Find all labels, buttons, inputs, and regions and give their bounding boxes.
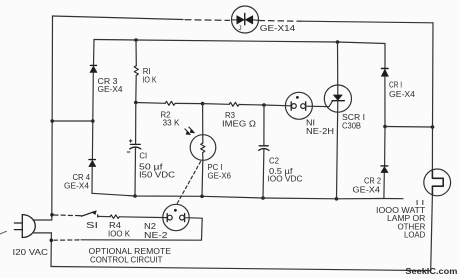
value label 33 K xyxy=(163,119,181,128)
label CR 2 xyxy=(364,177,382,186)
wire: outer left vertical xyxy=(51,16,54,220)
wire: outer top bus (left solid segment) xyxy=(53,16,184,20)
svg-text:CR 2: CR 2 xyxy=(364,177,382,186)
wire: bottom left vertical (plug to bottom bus corner) xyxy=(50,233,52,267)
svg-text:NE-2: NE-2 xyxy=(144,231,168,240)
wire: C1 bottom lead xyxy=(134,148,137,197)
scan artifact stroke (bottom left margin) xyxy=(0,231,7,234)
label N1 xyxy=(306,119,315,128)
wire: tie from CR junction to outer right vertical xyxy=(385,126,433,129)
dashed light path from N2 to PC1 xyxy=(177,162,201,205)
node: outer left vertical at tie wire xyxy=(50,119,54,123)
label R1 xyxy=(143,67,151,76)
wire: SCR cathode lead to bottom bus xyxy=(337,101,338,199)
node: bottom bus / SCR cathode junction xyxy=(335,197,339,201)
resistor R3 1MEG (horizontal zigzag) xyxy=(229,102,239,106)
svg-text:GE-X4: GE-X4 xyxy=(353,185,381,194)
wire: dashed remote feed to S1 xyxy=(54,214,79,217)
wire: outer top bus (right solid segment to top-right corner) xyxy=(301,21,433,23)
svg-text:GE-X6: GE-X6 xyxy=(208,172,232,181)
wire: R3 to C2 junction xyxy=(239,104,264,107)
node: CR1/CR2 junction xyxy=(383,125,387,129)
node: outer right vertical at tie xyxy=(431,125,435,129)
label R2 xyxy=(161,111,172,120)
wire: N2 right lead and remote return loop xyxy=(81,218,202,241)
wire: S1 to R4 xyxy=(98,215,110,217)
label C1 xyxy=(139,151,147,160)
label N2 xyxy=(144,222,157,231)
value label 100 K xyxy=(108,230,131,239)
resistor R2 33K (horizontal zigzag) xyxy=(165,101,175,105)
resistor R1 10K (vertical zigzag) xyxy=(134,66,138,76)
value label OTHER xyxy=(398,223,426,232)
svg-text:GE-X14: GE-X14 xyxy=(260,24,296,33)
svg-text:CR I: CR I xyxy=(389,81,402,90)
wire: tie between outer left and inner left branch xyxy=(52,120,93,122)
wire: C2 top lead xyxy=(263,105,265,145)
wire: left inner branch lower (CR4 anode to bottom bus corner) xyxy=(91,167,93,194)
label R4 xyxy=(109,221,122,230)
label CR 3 xyxy=(98,77,119,86)
capacitor C2 0.5uF 100VDC xyxy=(259,146,269,151)
value label GE-X4 (CR3) xyxy=(98,85,124,94)
value label LOAD xyxy=(404,231,426,240)
wire: plug bottom cord xyxy=(33,232,52,234)
svg-text:GE-X4: GE-X4 xyxy=(98,85,124,94)
value label LAMP OR xyxy=(387,214,426,223)
wire: PC1 top lead xyxy=(202,104,204,143)
svg-text:I20 VAC: I20 VAC xyxy=(13,248,49,257)
wire: outer right vertical (corner down to CR junction) xyxy=(432,23,435,127)
node: mid bus / PC1 top junction xyxy=(201,102,205,106)
photocell PC1 GE-X6 xyxy=(185,127,216,160)
svg-text:IOO K: IOO K xyxy=(108,230,131,239)
wire: dashed remote return to tap xyxy=(54,239,79,241)
value label 0.5 uf xyxy=(269,167,293,176)
neon lamp N1 NE-2H xyxy=(285,92,312,119)
wire: R4 to N2 xyxy=(120,216,168,219)
value label GE-X4 (CR2) xyxy=(353,185,381,194)
wire: left inner branch middle (CR3 anode to CR4 cathode) xyxy=(91,73,94,160)
node: remote return tap xyxy=(50,239,54,243)
wire: outer bottom bus xyxy=(51,267,431,271)
svg-text:GE-X4: GE-X4 xyxy=(64,182,90,191)
svg-text:I50 VDC: I50 VDC xyxy=(139,171,175,180)
svg-text:C2: C2 xyxy=(269,157,280,166)
value label GE-X4 (CR4) xyxy=(64,182,90,191)
value label GE-X4 (CR1) xyxy=(389,90,416,99)
node: bottom bus / C1 junction xyxy=(133,194,137,198)
value label 100 VDC xyxy=(268,174,303,183)
value label 1 MEG ohm xyxy=(222,119,256,128)
wire: outer top bus (dashed segment right of GE-X14) xyxy=(259,20,301,23)
svg-text:IMEG Ω: IMEG Ω xyxy=(222,119,256,128)
node: inner top bus / SCR anode junction xyxy=(336,40,340,44)
wire: plug top cord to outer left vertical xyxy=(33,219,52,221)
lamp I1 (load) xyxy=(424,169,451,196)
diode CR1 xyxy=(381,69,388,77)
diode CR4 xyxy=(89,160,96,167)
label I1 xyxy=(416,198,425,207)
label R3 xyxy=(225,111,236,120)
wire: mid bus R1 junction to R2 xyxy=(136,102,165,105)
resistor R4 100K (horizontal zigzag) xyxy=(110,215,119,219)
wire: C2 junction to N1 left electrode xyxy=(264,104,291,107)
svg-text:SeekIC.com: SeekIC.com xyxy=(405,266,457,276)
node: remote branch tap on outer left vertical xyxy=(50,213,54,217)
svg-text:C30B: C30B xyxy=(342,122,361,131)
label C2 xyxy=(269,157,280,166)
wire: PC1 junction to R3 xyxy=(203,103,230,106)
wire: R1 bottom lead xyxy=(135,76,137,103)
value label GE-X6 xyxy=(208,172,232,181)
wire: left inner branch upper (to CR3 cathode) xyxy=(93,40,96,66)
svg-text:J: J xyxy=(238,25,241,32)
surge suppressor J1 GE-X14 (bidirectional diode in circle) xyxy=(232,6,259,33)
wire: C1 top lead xyxy=(135,103,137,145)
wire: outer top bus (dashed segment left of GE-X14) xyxy=(185,19,230,22)
label PC 1 xyxy=(208,163,223,172)
node: mid bus / R1-C1 junction xyxy=(134,101,138,105)
diode CR3 xyxy=(90,65,97,72)
svg-text:SI: SI xyxy=(86,221,98,230)
value label 150 VDC xyxy=(139,171,175,180)
diode CR2 xyxy=(381,166,388,173)
value label 1000 WATT xyxy=(376,206,425,215)
label 120 VAC xyxy=(13,248,49,257)
wire: CR1 top lead from inner top bus corner xyxy=(384,44,386,69)
wire: R1 top lead xyxy=(135,40,137,66)
svg-text:IOO VDC: IOO VDC xyxy=(268,174,303,183)
svg-text:CI: CI xyxy=(139,151,147,160)
wire: C2 bottom lead xyxy=(262,149,265,198)
node: left inner branch at tie wire xyxy=(91,119,95,123)
label S1 xyxy=(86,221,98,230)
neon lamp N2 NE-2 xyxy=(163,204,189,230)
node: bottom bus / C2 junction xyxy=(261,196,265,200)
wire: N1 right electrode to SCR gate xyxy=(306,101,333,106)
svg-text:NE-2H: NE-2H xyxy=(306,127,334,136)
label SCR 1 xyxy=(342,113,365,122)
wire: R2 to PC1 junction xyxy=(175,102,202,104)
value label GE-X14 xyxy=(260,24,296,33)
label CR 1 xyxy=(389,81,402,90)
switch S1 xyxy=(80,211,98,218)
wire: PC1 bottom lead xyxy=(201,157,204,197)
svg-text:IO K: IO K xyxy=(142,76,157,85)
svg-text:N2: N2 xyxy=(144,222,157,231)
wire: outer right vertical into lamp xyxy=(431,127,433,170)
svg-text:LAMP OR: LAMP OR xyxy=(387,214,426,223)
wire: CR1 anode down to CR junction node xyxy=(384,76,386,126)
value label 50 uf xyxy=(139,163,164,172)
svg-text:LOAD: LOAD xyxy=(404,231,426,240)
svg-text:33 K: 33 K xyxy=(163,119,181,128)
plug P1 (120 VAC) xyxy=(14,215,35,238)
value label C30B xyxy=(342,122,361,131)
value label 10 K xyxy=(142,76,157,85)
wire: lamp bottom lead to bottom outer bus xyxy=(431,195,433,271)
label OPTIONAL REMOTE xyxy=(89,247,172,256)
watermark SeekIC.com xyxy=(405,266,457,276)
wire: CR2 anode to bottom bus corner xyxy=(383,173,385,199)
value label NE-2 xyxy=(144,231,168,240)
wire: inner top bus xyxy=(94,40,385,44)
label CONTROL CIRCUIT xyxy=(90,255,163,264)
label CR 4 xyxy=(73,173,91,182)
wire: CR2 top lead xyxy=(384,127,386,166)
node: bottom bus / PC1 junction xyxy=(200,195,204,199)
wire: inner bottom bus xyxy=(92,193,403,199)
label J (inside GE-X14 circle) xyxy=(238,25,241,32)
svg-text:GE-X4: GE-X4 xyxy=(389,90,416,99)
capacitor C1 50uF 150VDC (polarized) xyxy=(127,140,141,152)
SCR1 C30B (thyristor in circle) xyxy=(324,85,351,112)
svg-text:CONTROL CIRCUIT: CONTROL CIRCUIT xyxy=(90,255,163,264)
node: mid bus / C2 top junction xyxy=(262,103,266,107)
value label NE-2H xyxy=(306,127,334,136)
node: inner top bus / R1 junction xyxy=(134,38,138,42)
wire: SCR anode lead xyxy=(337,42,339,95)
